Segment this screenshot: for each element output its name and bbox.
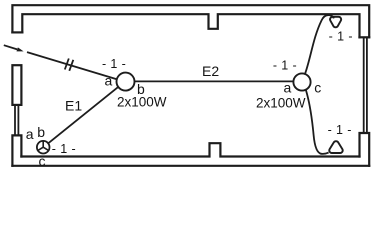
svg-text:b: b <box>37 124 45 140</box>
svg-text:E1: E1 <box>65 97 82 113</box>
svg-text:c: c <box>314 80 321 96</box>
svg-text:2x100W: 2x100W <box>256 96 306 111</box>
svg-text:a: a <box>284 79 292 95</box>
svg-text:- 1 -: - 1 - <box>102 57 126 71</box>
svg-text:- 1 -: - 1 - <box>329 30 353 44</box>
svg-text:- 1 -: - 1 - <box>273 59 297 73</box>
svg-text:a: a <box>26 126 34 142</box>
svg-text:a: a <box>105 72 113 88</box>
svg-text:- 1 -: - 1 - <box>52 142 76 156</box>
svg-text:b: b <box>137 81 145 97</box>
svg-text:c: c <box>39 153 46 169</box>
svg-text:E2: E2 <box>202 63 219 79</box>
svg-text:- 1 -: - 1 - <box>328 123 352 137</box>
